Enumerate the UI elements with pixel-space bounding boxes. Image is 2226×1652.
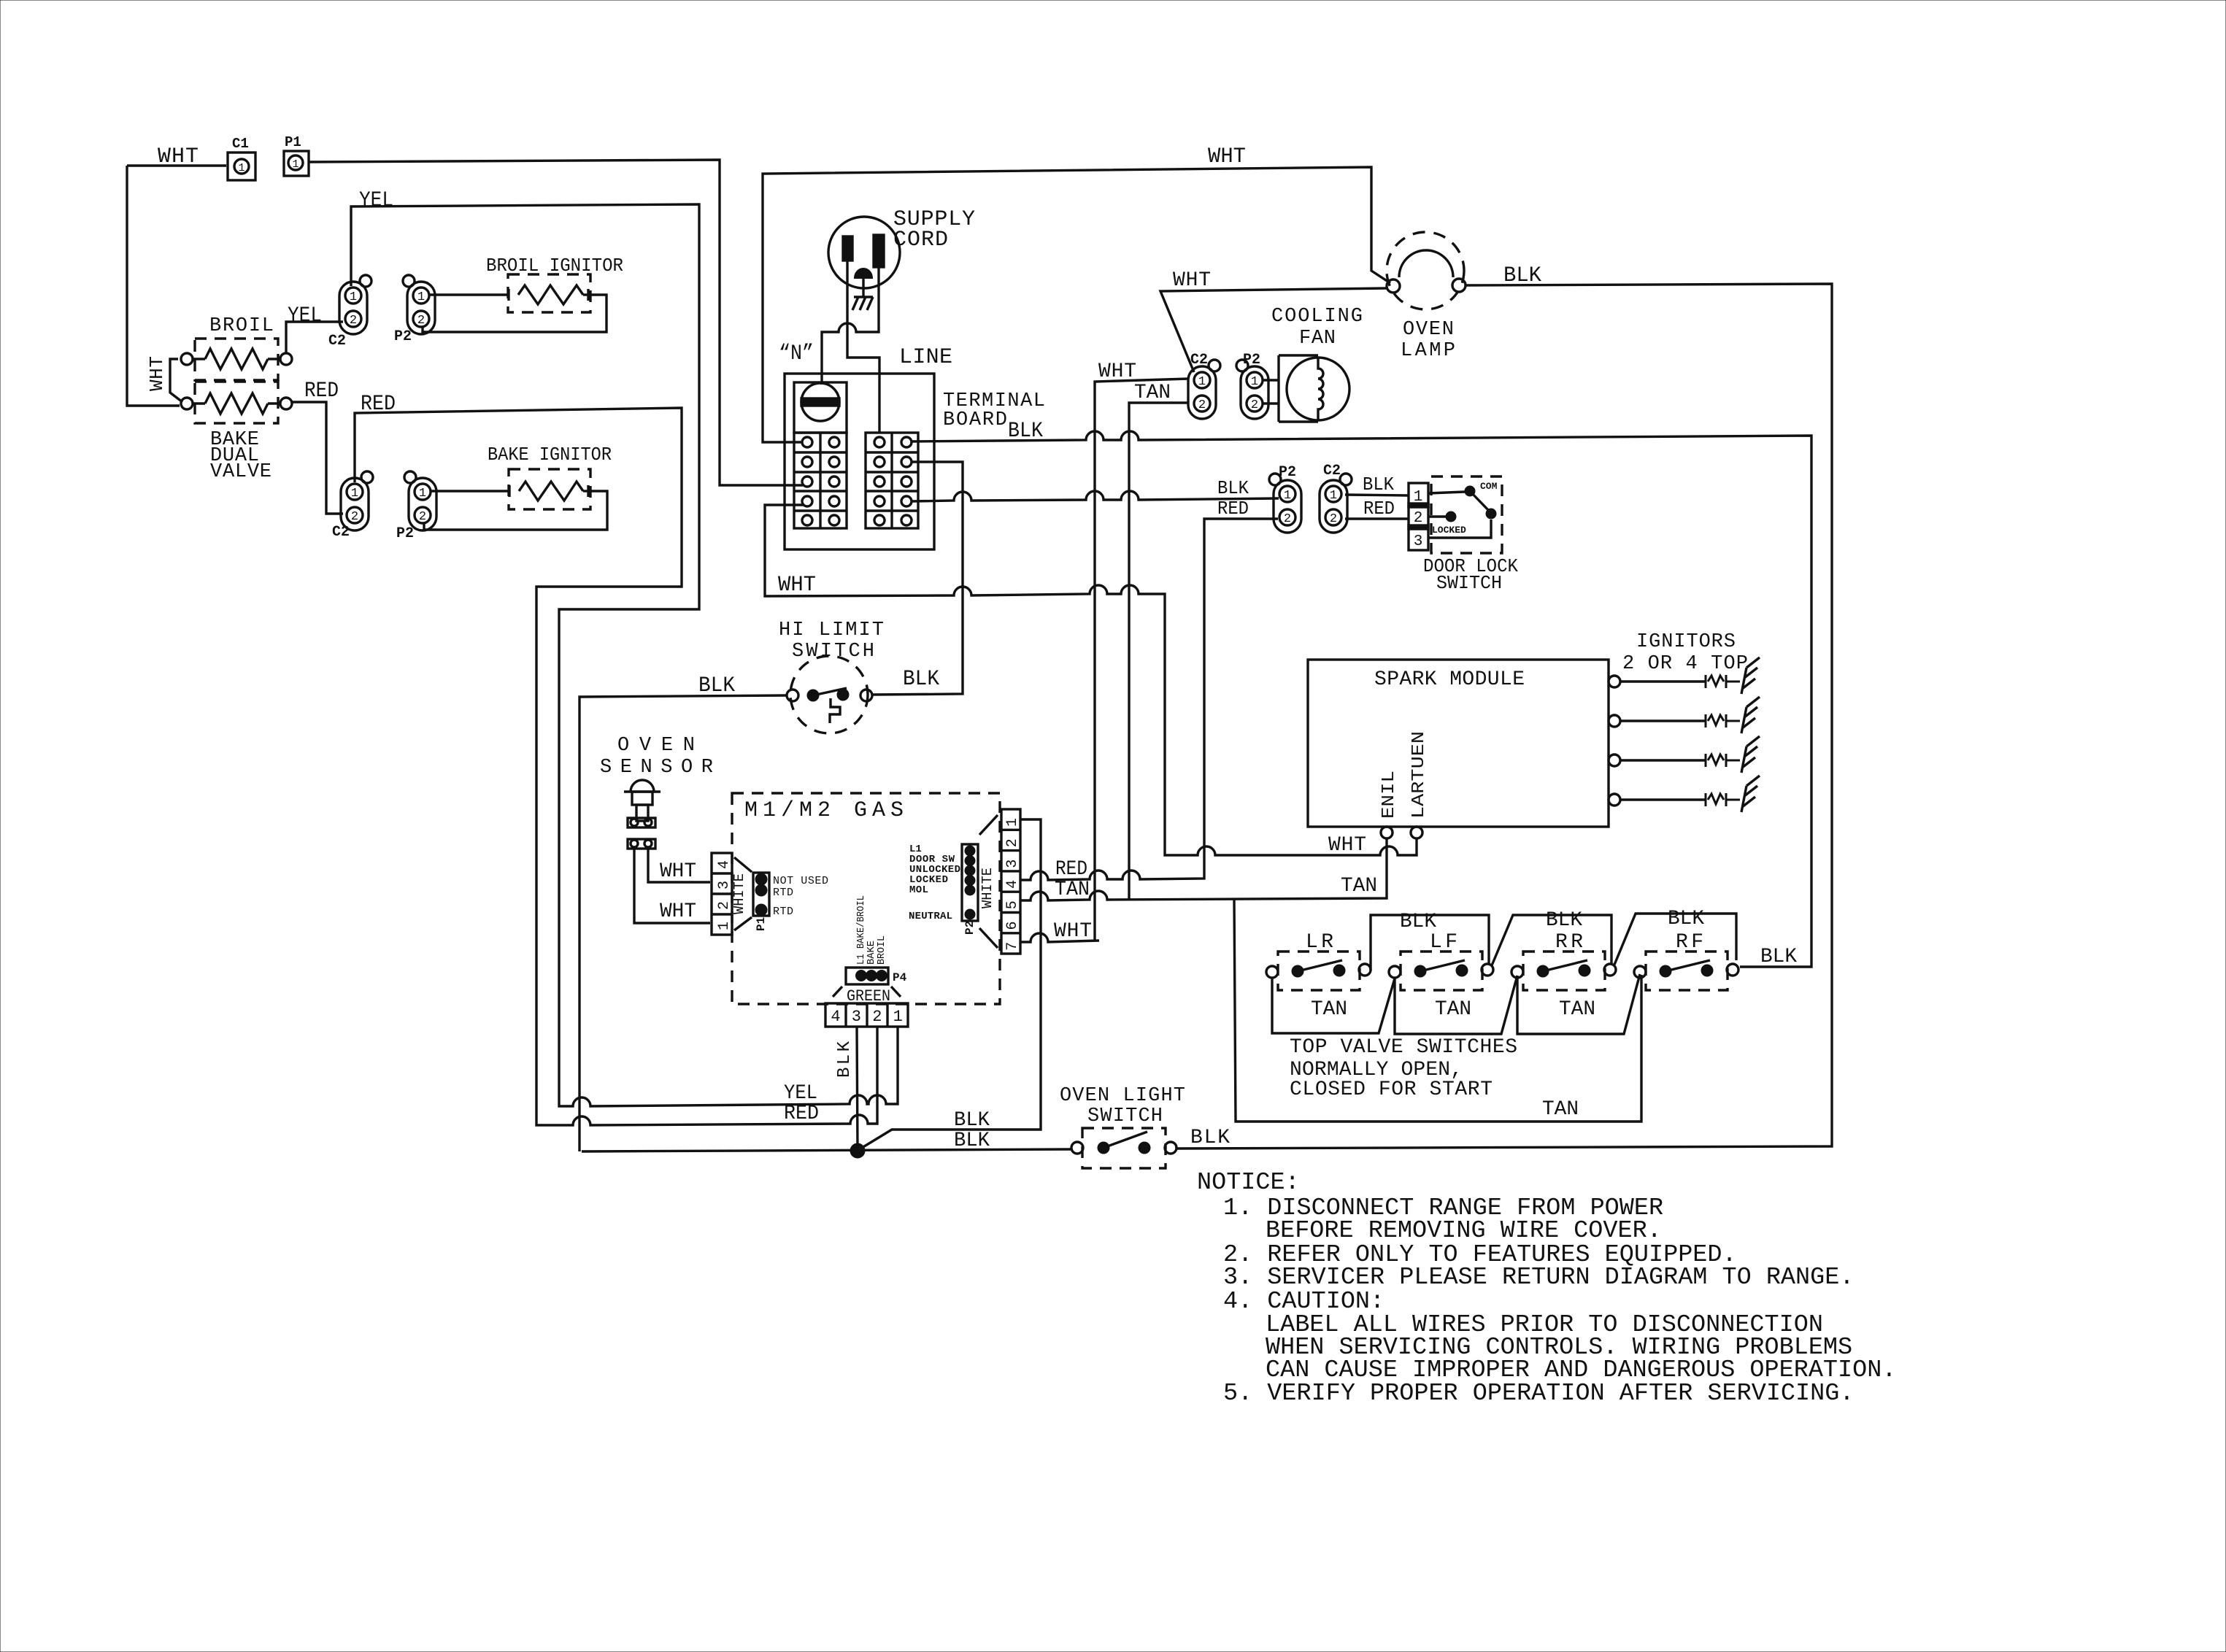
- connector C2 (broil valve): [328, 275, 371, 350]
- svg-text:2 OR 4 TOP: 2 OR 4 TOP: [1622, 653, 1748, 675]
- wire WHT cooling fan C2-1 to M1/M2 pin7: [1095, 360, 1189, 941]
- svg-text:1: 1: [716, 922, 733, 930]
- svg-text:NOTICE:: NOTICE:: [1197, 1169, 1300, 1197]
- svg-text:WHT: WHT: [1208, 144, 1246, 169]
- wire P2-1 to broil ignitor: [430, 289, 509, 301]
- svg-text:WHITE: WHITE: [731, 873, 747, 914]
- svg-text:ENIL: ENIL: [1379, 771, 1399, 819]
- wire BLK hi-limit left leg: [579, 673, 787, 1151]
- M1/M2 right terminal strip pins 1-7: [1001, 809, 1021, 954]
- wire YEL from broil valve to C2 pin2: [286, 304, 343, 353]
- top valve switch LR: [1266, 931, 1371, 990]
- wire TAN cooling fan C2-2 down: [1129, 382, 1188, 899]
- resistor BROIL IGNITOR: [486, 255, 623, 312]
- svg-text:WHT: WHT: [660, 900, 696, 923]
- svg-text:RED: RED: [784, 1103, 819, 1125]
- wire WHT top run from terminal board to oven lamp: [763, 144, 1390, 442]
- svg-text:BOARD: BOARD: [943, 409, 1007, 431]
- wire TAN link LF to RR: [1395, 976, 1517, 1034]
- top valve switch RR: [1511, 931, 1616, 990]
- svg-text:5. VERIFY PROPER OPERATION AFT: 5. VERIFY PROPER OPERATION AFTER SERVICI…: [1223, 1380, 1854, 1408]
- svg-text:1: 1: [351, 487, 358, 501]
- svg-text:3: 3: [716, 881, 733, 889]
- M1/M2 P1 pin block (RTD): [753, 873, 828, 931]
- svg-text:2: 2: [1004, 838, 1021, 847]
- svg-text:P2: P2: [963, 921, 977, 935]
- svg-text:1: 1: [292, 158, 299, 171]
- wire P2-1 to bake ignitor: [431, 485, 509, 497]
- svg-text:P1: P1: [285, 134, 301, 150]
- wire "N" neutral from plug to terminal board screw: [779, 267, 879, 385]
- wire WHT bracket to broil valve: [146, 356, 182, 402]
- svg-text:1: 1: [419, 487, 426, 501]
- svg-text:3: 3: [1414, 533, 1423, 550]
- svg-text:BLK: BLK: [1217, 477, 1249, 499]
- svg-text:SWITCH: SWITCH: [1436, 572, 1502, 594]
- wire WHT to C1: [127, 144, 226, 169]
- svg-text:CORD: CORD: [893, 228, 948, 252]
- svg-text:4: 4: [1004, 880, 1021, 889]
- M1/M2 GAS control dashed box: [732, 793, 1000, 1004]
- svg-text:WHT: WHT: [660, 860, 696, 883]
- svg-text:2: 2: [716, 901, 733, 910]
- terminal board right block: [866, 433, 918, 528]
- svg-text:BLK: BLK: [1400, 911, 1436, 933]
- svg-text:1: 1: [1284, 489, 1291, 503]
- wire BLK from terminal board row1 to top valve switches: [912, 419, 1811, 967]
- svg-text:4: 4: [831, 1008, 840, 1026]
- svg-text:BLK: BLK: [1190, 1127, 1230, 1149]
- svg-text:WHITE: WHITE: [979, 868, 995, 908]
- wire RED long from C2 pin1 down to P4 pin2: [355, 392, 877, 1125]
- svg-text:TOP VALVE SWITCHES: TOP VALVE SWITCHES: [1290, 1036, 1517, 1059]
- svg-text:2: 2: [1198, 398, 1206, 412]
- wire BLK RF output: [1760, 946, 1797, 968]
- svg-text:C2: C2: [1323, 463, 1341, 479]
- spark module: [1308, 660, 1609, 838]
- svg-text:RTD: RTD: [773, 906, 793, 918]
- svg-text:BLK: BLK: [1668, 908, 1704, 930]
- terminal board outline: [785, 374, 1045, 549]
- svg-text:CLOSED FOR START: CLOSED FOR START: [1290, 1078, 1493, 1101]
- ground symbol (supply cord): [852, 278, 873, 310]
- svg-text:BLK: BLK: [1008, 419, 1043, 444]
- cooling fan motor: [1263, 306, 1363, 422]
- svg-text:4: 4: [716, 860, 733, 869]
- wire WHT to oven lamp (from cooling fan node): [1160, 269, 1387, 372]
- wire BLK bottom bus to oven light switch: [582, 1130, 1071, 1158]
- svg-text:BLK: BLK: [835, 1041, 855, 1078]
- oven lamp: [1387, 232, 1466, 362]
- connector C2 (cooling fan): [1188, 352, 1220, 419]
- wire LINE from plug to terminal board: [847, 260, 952, 433]
- door lock switch terminal strip: [1409, 483, 1428, 550]
- connector P2 (bake ignitor): [396, 471, 436, 542]
- svg-text:P1: P1: [755, 917, 768, 931]
- hi limit switch: [779, 619, 884, 733]
- door lock switch: [1423, 476, 1518, 594]
- svg-text:1: 1: [1330, 489, 1337, 503]
- svg-text:C2: C2: [328, 333, 346, 350]
- top valve switch RF: [1634, 931, 1738, 990]
- svg-text:P2: P2: [394, 328, 412, 345]
- svg-text:C2: C2: [332, 524, 350, 541]
- wire WHT oven sensor to P1 pin1: [634, 849, 710, 923]
- svg-text:TAN: TAN: [1311, 998, 1347, 1021]
- svg-text:1: 1: [1198, 375, 1206, 389]
- wire BLK M1/M2 pin1 to junction: [858, 819, 1041, 1150]
- top valve switches note box: [1234, 898, 1641, 1122]
- top valve switch LF: [1389, 931, 1493, 990]
- wire bake ignitor return loop to P2-2: [424, 491, 607, 530]
- svg-text:1: 1: [893, 1008, 903, 1026]
- svg-text:BLK: BLK: [1503, 263, 1541, 288]
- wire BLK oven light switch to lamp bus: [1176, 1127, 1230, 1149]
- svg-text:2: 2: [1414, 510, 1423, 527]
- svg-text:2: 2: [1330, 512, 1337, 526]
- connector C2 (bake valve): [332, 471, 373, 541]
- svg-text:1: 1: [1414, 489, 1423, 506]
- wire RED from bake valve to C2 pin2: [292, 379, 343, 514]
- svg-text:IGNITORS: IGNITORS: [1636, 631, 1736, 653]
- connector P2 (broil ignitor): [394, 275, 435, 345]
- svg-text:BLK: BLK: [698, 673, 735, 698]
- valve coil BROIL (broil dual valve top): [181, 315, 292, 380]
- svg-text:TAN: TAN: [1559, 998, 1595, 1021]
- svg-text:3: 3: [1004, 860, 1021, 868]
- wire RED C2 to door lock terminal 2: [1345, 498, 1409, 520]
- svg-text:2: 2: [872, 1008, 882, 1026]
- wire BLK C2 to door lock terminal 1: [1345, 474, 1409, 495]
- svg-text:VALVE: VALVE: [210, 461, 271, 483]
- wire BLK oven lamp to bottom bus: [1176, 263, 1832, 1149]
- svg-text:2: 2: [351, 510, 358, 524]
- M1/M2 P4 pin block: [833, 895, 907, 1006]
- wire BLK link RR to RF: [1614, 908, 1736, 965]
- wire BLK link LF to RR: [1492, 909, 1611, 965]
- svg-text:1: 1: [1251, 375, 1258, 389]
- connector C2 (door lock): [1320, 463, 1352, 533]
- svg-text:YEL: YEL: [288, 304, 322, 328]
- svg-text:TAN: TAN: [1542, 1098, 1579, 1121]
- wire YEL from C2 to top run and down to P4 pin1: [351, 188, 898, 1106]
- svg-text:C1: C1: [232, 136, 249, 152]
- svg-text:P2: P2: [1243, 352, 1260, 368]
- terminal board neutral screw: [794, 382, 847, 433]
- svg-text:1: 1: [1004, 818, 1021, 827]
- supply cord plug: [828, 207, 975, 288]
- wire WHT oven sensor to P1 pin3: [648, 849, 710, 883]
- svg-text:RTD: RTD: [773, 887, 793, 899]
- svg-text:1: 1: [238, 162, 244, 174]
- svg-text:SWITCH: SWITCH: [1087, 1105, 1163, 1127]
- svg-text:MOL: MOL: [909, 884, 928, 896]
- svg-text:P2: P2: [396, 525, 414, 542]
- svg-text:1: 1: [350, 290, 357, 304]
- svg-text:WHT: WHT: [1173, 269, 1211, 292]
- valve coil BAKE (bake dual valve bottom): [181, 382, 292, 483]
- svg-text:BLK: BLK: [903, 667, 939, 692]
- svg-text:7: 7: [1004, 942, 1021, 951]
- svg-text:BLK: BLK: [1760, 946, 1797, 968]
- svg-text:P4: P4: [893, 971, 907, 984]
- svg-text:BLK: BLK: [1546, 909, 1582, 932]
- svg-text:1: 1: [417, 290, 425, 304]
- svg-text:2: 2: [1251, 398, 1258, 412]
- svg-text:TAN: TAN: [1134, 382, 1171, 404]
- svg-text:FAN: FAN: [1299, 328, 1336, 350]
- notice text: [1197, 1169, 1896, 1408]
- connector P2 (cooling fan): [1236, 352, 1268, 419]
- svg-text:5: 5: [1004, 900, 1021, 909]
- svg-text:LINE: LINE: [899, 345, 952, 370]
- svg-text:2: 2: [350, 314, 357, 328]
- svg-text:WHT: WHT: [146, 356, 168, 391]
- svg-text:BLK: BLK: [954, 1130, 990, 1152]
- svg-text:RED: RED: [1217, 498, 1249, 520]
- svg-text:6: 6: [1004, 921, 1021, 930]
- svg-text:C2: C2: [1190, 352, 1208, 368]
- svg-text:NEUTRAL: NEUTRAL: [909, 911, 952, 922]
- wire broil ignitor return loop to P2-2: [423, 295, 606, 332]
- svg-text:YEL: YEL: [359, 188, 393, 213]
- svg-text:WHT: WHT: [1098, 360, 1136, 383]
- M1/M2 GREEN terminal strip pins 4-1: [825, 1003, 908, 1027]
- svg-text:BROIL: BROIL: [876, 935, 887, 965]
- svg-text:RED: RED: [1055, 858, 1087, 881]
- svg-text:SPARK MODULE: SPARK MODULE: [1374, 668, 1525, 691]
- wire WHT from P1 to terminal board row3: [309, 160, 803, 485]
- wire BLK P4 pin3 to junction: [835, 1027, 858, 1150]
- svg-text:2: 2: [1284, 512, 1291, 526]
- svg-text:TAN: TAN: [1435, 998, 1471, 1021]
- svg-text:RED: RED: [304, 379, 339, 404]
- wire BLK hi-limit right leg to terminal board row2: [871, 462, 963, 695]
- svg-text:TAN: TAN: [1055, 879, 1090, 901]
- svg-text:NOT USED: NOT USED: [773, 875, 828, 887]
- svg-text:RED: RED: [1363, 498, 1395, 520]
- wire TAN link RR to RF: [1517, 974, 1640, 1034]
- svg-text:BROIL: BROIL: [209, 315, 274, 337]
- svg-text:OVEN: OVEN: [1403, 319, 1454, 341]
- svg-text:OVEN LIGHT: OVEN LIGHT: [1060, 1085, 1185, 1107]
- wire BLK link LR to LF: [1371, 911, 1489, 970]
- svg-text:WHT: WHT: [158, 144, 199, 169]
- svg-text:2: 2: [417, 314, 425, 328]
- wire TAN M1/M2 pin5 to spark module line: [1020, 838, 1387, 901]
- svg-text:COOLING: COOLING: [1271, 306, 1363, 328]
- wire TAN link LR to LF: [1272, 978, 1395, 1033]
- svg-text:3: 3: [852, 1008, 861, 1026]
- svg-text:BLK: BLK: [954, 1109, 990, 1132]
- svg-text:LOCKED: LOCKED: [1432, 525, 1466, 536]
- svg-text:“N”: “N”: [779, 341, 814, 366]
- oven sensor: [600, 735, 713, 849]
- connector P1: [284, 134, 309, 176]
- svg-text:TAN: TAN: [1341, 875, 1377, 898]
- svg-text:WHT: WHT: [1054, 920, 1092, 943]
- M1/M2 P2 pin block (door switch): [909, 815, 998, 948]
- svg-text:2: 2: [419, 510, 426, 524]
- oven light switch: [1060, 1085, 1185, 1168]
- ignitor output wires: [1609, 631, 1760, 812]
- terminal board left block: [794, 433, 847, 528]
- svg-text:YEL: YEL: [784, 1082, 817, 1105]
- svg-text:BAKE IGNITOR: BAKE IGNITOR: [488, 444, 612, 466]
- svg-text:WHT: WHT: [778, 573, 816, 598]
- wire BLK from terminal board row4 to door lock P2: [912, 477, 1279, 501]
- svg-text:M1/M2 GAS: M1/M2 GAS: [744, 798, 904, 823]
- svg-text:WHT: WHT: [1328, 834, 1366, 857]
- svg-text:LARTUEN: LARTUEN: [1409, 731, 1429, 819]
- connector C1: [228, 136, 255, 180]
- wire RED M1/M2 pin4 to door lock P2-2: [1020, 498, 1278, 881]
- resistor BAKE IGNITOR: [488, 444, 612, 509]
- connector P2 (door lock): [1269, 464, 1301, 533]
- svg-text:BLK: BLK: [1363, 474, 1394, 495]
- svg-text:COM: COM: [1480, 481, 1498, 492]
- wire WHT M1/M2 pin7: [1020, 920, 1099, 943]
- wire WHT from terminal board row4 to spark module neutral: [765, 505, 1417, 857]
- M1/M2 P1 terminal strip: [712, 853, 752, 935]
- svg-text:P2: P2: [1279, 464, 1296, 481]
- wire WHT left drop to bake valve: [127, 166, 180, 406]
